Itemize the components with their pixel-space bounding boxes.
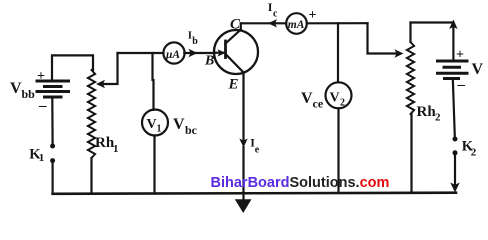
svg-text:V: V [173, 116, 185, 133]
svg-text:B: B [204, 53, 214, 68]
svg-text:+: + [309, 8, 317, 23]
svg-text:c: c [273, 9, 278, 20]
svg-text:1: 1 [39, 152, 45, 164]
svg-text:bb: bb [22, 87, 36, 101]
svg-text:–: – [38, 98, 47, 114]
svg-text:bc: bc [185, 123, 198, 137]
svg-text:+: + [456, 48, 464, 63]
svg-text:μA: μA [165, 49, 180, 61]
svg-text:C: C [230, 16, 241, 32]
svg-text:V: V [330, 91, 340, 106]
svg-text:V: V [147, 117, 157, 132]
svg-text:1: 1 [157, 124, 162, 135]
svg-text:+: + [37, 69, 45, 84]
svg-text:–: – [457, 77, 466, 93]
svg-text:Rh: Rh [95, 135, 115, 151]
svg-text:ce: ce [313, 97, 324, 111]
svg-text:mA: mA [288, 19, 305, 31]
svg-text:1: 1 [113, 143, 119, 155]
svg-text:2: 2 [471, 146, 477, 158]
svg-text:2: 2 [435, 112, 441, 124]
svg-text:2: 2 [340, 98, 345, 109]
svg-text:V: V [472, 61, 484, 78]
svg-text:V: V [10, 80, 22, 97]
svg-text:E: E [228, 77, 239, 93]
svg-text:b: b [192, 36, 198, 47]
svg-text:Rh: Rh [417, 104, 437, 120]
svg-text:BiharBoardSolutions.com: BiharBoardSolutions.com [211, 175, 390, 191]
svg-text:V: V [301, 90, 313, 107]
svg-text:e: e [255, 145, 260, 156]
